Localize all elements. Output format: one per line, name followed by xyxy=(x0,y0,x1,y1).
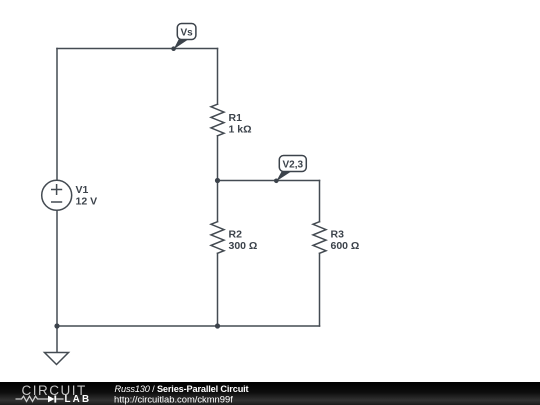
wire ground stub xyxy=(56,326,58,353)
resistor R3 xyxy=(313,222,326,254)
svg-text:300 Ω: 300 Ω xyxy=(229,240,258,252)
R2 value label xyxy=(229,229,258,252)
wire R1 bottom lead to node V2,3 xyxy=(217,136,219,181)
footer bar xyxy=(0,382,540,405)
wire R1 branch top lead xyxy=(217,49,219,105)
wire R3 bottom lead xyxy=(319,253,321,326)
svg-text:LAB: LAB xyxy=(65,394,92,405)
R1 value label xyxy=(229,112,252,135)
wire left vertical (top of V1) xyxy=(56,49,58,181)
node flag Vs xyxy=(171,24,196,52)
svg-text:R1: R1 xyxy=(229,112,243,124)
junction node V2,3 dot xyxy=(215,178,220,183)
wire left vertical (bottom of V1) xyxy=(56,210,58,326)
svg-text:Russ130 / Series-Parallel Circ: Russ130 / Series-Parallel Circuit xyxy=(115,384,249,394)
wire R3 top lead xyxy=(319,181,321,222)
wire R2 top lead xyxy=(217,181,219,222)
wire middle horizontal (node V2,3) xyxy=(218,180,320,182)
resistor R1 xyxy=(211,104,224,136)
svg-text:600 Ω: 600 Ω xyxy=(331,240,360,252)
wire bottom horizontal (ground net) xyxy=(57,325,320,327)
svg-text:1 kΩ: 1 kΩ xyxy=(229,123,252,135)
svg-text:12 V: 12 V xyxy=(76,195,98,207)
R3 value label xyxy=(331,229,360,252)
svg-text:R2: R2 xyxy=(229,229,243,241)
wire top horizontal (Vs net) xyxy=(57,48,218,50)
footer title text xyxy=(114,384,249,405)
junction dot bottom middle xyxy=(215,323,220,328)
junction dot bottom left xyxy=(54,323,59,328)
CircuitLab logo xyxy=(16,383,92,405)
wire R2 bottom lead xyxy=(217,253,219,326)
V1 value label xyxy=(76,184,98,207)
svg-text:R3: R3 xyxy=(331,229,345,241)
ground xyxy=(45,353,69,365)
svg-text:V1: V1 xyxy=(76,184,89,196)
voltage source V1 xyxy=(42,180,72,210)
svg-text:Vs: Vs xyxy=(180,28,193,39)
svg-text:V2,3: V2,3 xyxy=(283,160,304,171)
node flag V2,3 xyxy=(274,156,306,184)
svg-text:http://circuitlab.com/ckmn99f: http://circuitlab.com/ckmn99f xyxy=(114,393,233,404)
resistor R2 xyxy=(211,222,224,254)
